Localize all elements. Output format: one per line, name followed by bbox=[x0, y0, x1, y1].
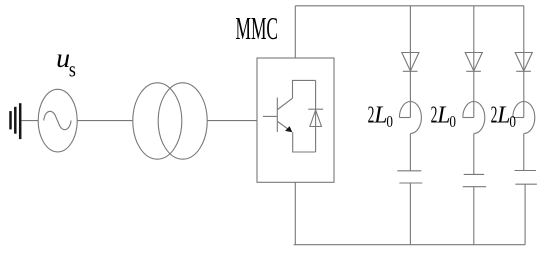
capacitor C1 bottom plate bbox=[399, 182, 422, 184]
sine wave bbox=[44, 111, 71, 129]
IGBT collector diagonal bbox=[278, 98, 293, 109]
svg-text:s: s bbox=[69, 57, 76, 82]
inductor L1 tick bbox=[399, 117, 410, 119]
capacitor C3 bottom plate bbox=[515, 183, 537, 185]
wire MMC bottom bbox=[294, 182, 296, 244]
svg-text:0: 0 bbox=[449, 112, 456, 131]
freewheel diode triangle bbox=[310, 110, 322, 127]
capacitor C1 top plate bbox=[397, 170, 421, 172]
branch 2 wire mid bbox=[473, 71, 475, 117]
svg-text:MMC: MMC bbox=[236, 10, 279, 46]
capacitor C2 top plate bbox=[464, 173, 485, 175]
capacitor C2 bottom plate bbox=[463, 186, 486, 188]
IGBT gate lead bbox=[263, 115, 277, 117]
bottom bus bbox=[294, 244, 525, 246]
wire transformer to MMC bbox=[207, 120, 257, 122]
top bus bbox=[295, 5, 524, 7]
diode D2 triangle bbox=[465, 53, 482, 72]
diode D3 cathode bar bbox=[516, 70, 531, 72]
svg-text:0: 0 bbox=[509, 112, 516, 131]
branch 1 wire bottom bbox=[409, 183, 411, 245]
freewheel diode cathode bar bbox=[308, 108, 323, 110]
label 2L0 branch 2 bbox=[431, 101, 456, 131]
svg-text:L: L bbox=[436, 101, 450, 128]
capacitor C3 top plate bbox=[515, 170, 536, 172]
label 2L0 branch 3 bbox=[491, 101, 516, 131]
inductor L3 loop bbox=[513, 102, 535, 134]
branch 2 wire bottom bbox=[473, 187, 475, 245]
IGBT emitter diagonal bbox=[278, 122, 290, 131]
branch 1 wire to cap bbox=[409, 134, 411, 171]
branch 1 wire top bbox=[409, 6, 411, 72]
diode D3 triangle bbox=[515, 53, 532, 72]
IGBT gate bar bbox=[276, 98, 278, 133]
freewheel diode wire bbox=[315, 80, 317, 152]
branch 2 wire top bbox=[473, 6, 475, 72]
inductor L2 tick bbox=[463, 117, 474, 119]
branch 3 wire mid bbox=[523, 71, 525, 117]
branch 2 wire to cap bbox=[473, 134, 475, 175]
IGBT emitter arrow bbox=[285, 126, 292, 132]
diode D1 cathode bar bbox=[403, 70, 418, 72]
transformer winding 1 bbox=[133, 83, 182, 159]
diode D2 cathode bar bbox=[466, 70, 481, 72]
svg-text:L: L bbox=[373, 101, 387, 128]
MMC converter box U1 bbox=[257, 58, 334, 182]
inductor L1 loop bbox=[399, 102, 421, 134]
branch 3 wire to cap bbox=[523, 134, 525, 171]
AC source u_s bbox=[38, 89, 77, 152]
diode D1 triangle bbox=[402, 53, 419, 72]
wire MMC top bbox=[294, 6, 296, 58]
wire ground to source bbox=[21, 120, 38, 122]
IGBT collector wire bbox=[293, 80, 316, 98]
label 2L0 branch 1 bbox=[368, 101, 393, 131]
IGBT emitter wire bbox=[293, 132, 316, 152]
transformer winding 2 bbox=[158, 83, 207, 159]
branch 1 wire mid bbox=[409, 71, 411, 117]
branch 3 wire top bbox=[523, 6, 525, 72]
svg-text:0: 0 bbox=[386, 112, 393, 131]
inductor L3 tick bbox=[513, 117, 524, 119]
svg-text:L: L bbox=[496, 101, 510, 128]
inductor L2 loop bbox=[463, 102, 485, 134]
ground bbox=[11, 103, 21, 139]
branch 3 wire bottom bbox=[524, 184, 526, 245]
wire source to transformer bbox=[77, 120, 133, 122]
